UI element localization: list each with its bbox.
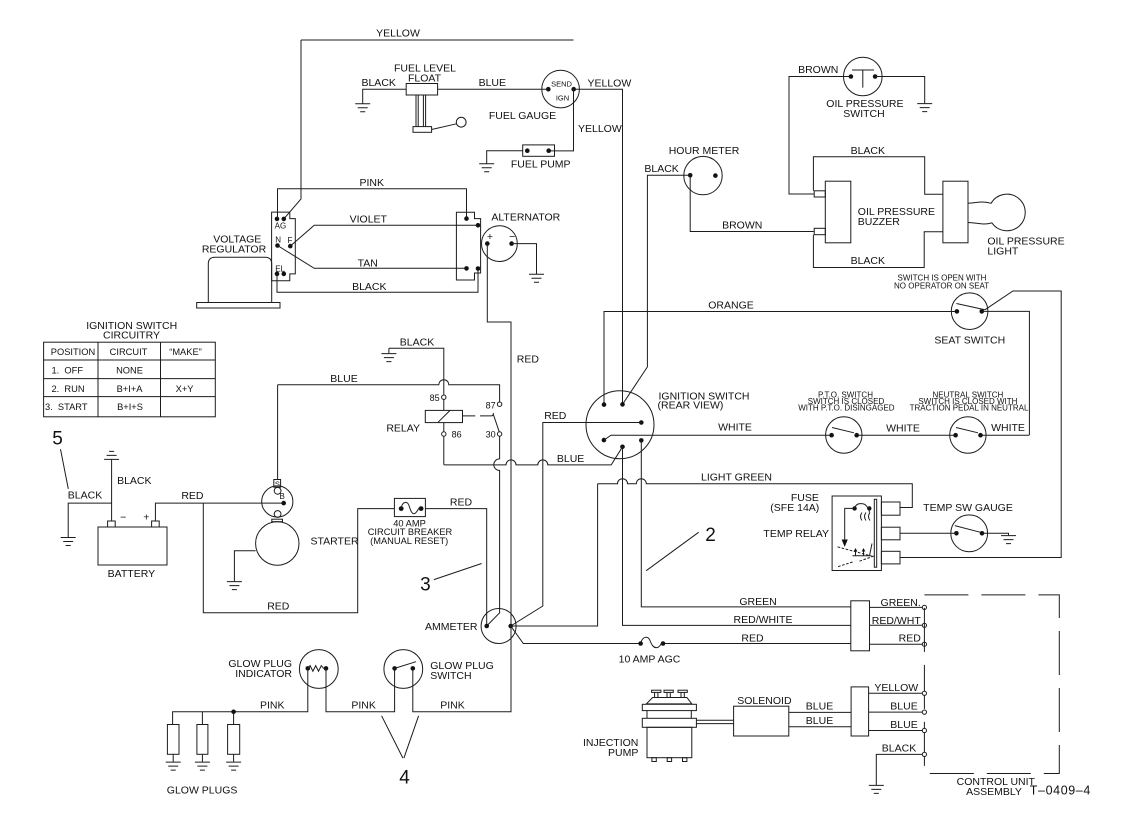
voltage regulator body xyxy=(197,234,280,308)
svg-text:SEAT SWITCH: SEAT SWITCH xyxy=(934,335,1005,347)
ground (oil switch) xyxy=(917,104,932,112)
svg-text:CIRCUIT: CIRCUIT xyxy=(110,347,148,357)
svg-text:BLACK: BLACK xyxy=(851,145,885,157)
svg-text:WHITE: WHITE xyxy=(718,422,752,434)
svg-text:BLACK: BLACK xyxy=(851,255,885,267)
svg-text:86: 86 xyxy=(452,430,462,440)
circuit breaker 40 amp xyxy=(368,498,453,545)
svg-text:SWITCH: SWITCH xyxy=(430,670,471,682)
alternator xyxy=(482,212,561,262)
temp relay xyxy=(763,492,900,571)
svg-text:N: N xyxy=(275,235,281,244)
wire BLACK buzzer upper loop xyxy=(813,145,943,194)
svg-text:F: F xyxy=(288,236,293,245)
svg-text:BLUE: BLUE xyxy=(806,715,833,727)
wire RED ammeter to control connector xyxy=(511,626,851,644)
wire injection pump rod to solenoid xyxy=(696,720,733,723)
svg-text:ALTERNATOR: ALTERNATOR xyxy=(491,212,560,224)
svg-text:TAN: TAN xyxy=(358,257,378,269)
svg-text:30: 30 xyxy=(486,430,496,440)
svg-text:RED/WHT: RED/WHT xyxy=(872,615,922,627)
svg-text:GREEN.: GREEN. xyxy=(881,597,921,609)
fuel gauge SEND/IGN xyxy=(489,70,580,122)
wire YELLOW top loop xyxy=(284,28,574,219)
svg-text:4: 4 xyxy=(399,767,410,788)
svg-text:GREEN: GREEN xyxy=(739,596,776,608)
control unit terminals upper xyxy=(922,605,926,646)
node 5 callout xyxy=(52,429,68,489)
wire seat switch right to white run xyxy=(982,311,1030,435)
ground (relay) xyxy=(381,354,396,362)
svg-text:(REAR VIEW): (REAR VIEW) xyxy=(658,400,724,412)
wire BLACK ground to control unit xyxy=(876,743,922,786)
starter xyxy=(256,480,359,566)
glow plug switch xyxy=(384,650,494,689)
svg-text:TRACTION PEDAL IN NEUTRAL: TRACTION PEDAL IN NEUTRAL xyxy=(910,404,1029,413)
svg-text:RED/WHITE: RED/WHITE xyxy=(734,614,793,626)
svg-text:−: − xyxy=(120,512,126,524)
wire YELLOW connector to control unit xyxy=(869,682,923,694)
svg-text:87: 87 xyxy=(486,400,496,410)
wire YELLOW gauge to ignition switch xyxy=(574,78,632,405)
svg-text:(SFE 14A): (SFE 14A) xyxy=(770,502,819,514)
svg-text:PINK: PINK xyxy=(351,700,376,712)
svg-text:B+I+A: B+I+A xyxy=(117,384,144,394)
svg-text:FLOAT: FLOAT xyxy=(408,73,442,85)
svg-text:ASSEMBLY: ASSEMBLY xyxy=(966,786,1022,798)
svg-text:SOLENOID: SOLENOID xyxy=(737,695,792,707)
temp sw gauge xyxy=(923,502,1013,552)
svg-text:YELLOW: YELLOW xyxy=(874,682,918,694)
svg-text:B+I+S: B+I+S xyxy=(117,402,143,412)
wire BLACK relay coil to ground xyxy=(389,336,444,395)
svg-text:BATTERY: BATTERY xyxy=(108,568,155,580)
wire alternator minus to ground xyxy=(512,244,537,274)
svg-text:RED: RED xyxy=(181,490,204,502)
svg-text:TEMP RELAY: TEMP RELAY xyxy=(763,528,829,540)
ground (glow plug 3) xyxy=(226,762,241,770)
svg-text:RED: RED xyxy=(450,497,473,509)
svg-text:10 AMP AGC: 10 AMP AGC xyxy=(619,653,681,665)
connector block lower xyxy=(851,687,869,736)
wire relay 30 to ammeter (hops blue) xyxy=(487,436,500,626)
svg-text:PINK: PINK xyxy=(260,700,285,712)
wire BLACK buzzer lower loop xyxy=(813,232,943,268)
wire PINK regulator to alternator xyxy=(278,177,467,219)
fuel pump xyxy=(511,145,571,170)
ignition switch circuitry table xyxy=(44,320,216,417)
svg-text:85: 85 xyxy=(430,393,440,403)
wire RED ignition to ammeter xyxy=(511,410,642,626)
svg-text:3. START: 3. START xyxy=(45,402,88,412)
wire BLUE starter S to relay 87 xyxy=(278,373,500,480)
pto switch xyxy=(798,390,895,453)
svg-text:RED: RED xyxy=(741,632,764,644)
svg-text:FUEL PUMP: FUEL PUMP xyxy=(511,158,571,170)
battery xyxy=(98,512,167,581)
svg-text:BROWN: BROWN xyxy=(798,64,838,76)
svg-text:BLUE: BLUE xyxy=(479,77,506,89)
svg-text:BLACK: BLACK xyxy=(400,336,434,348)
wire BLUE solenoid to connector (upper) xyxy=(789,701,851,713)
fuel level float xyxy=(394,63,466,133)
svg-text:LIGHT: LIGHT xyxy=(987,245,1019,257)
neutral switch xyxy=(910,390,1029,453)
svg-text:2. RUN: 2. RUN xyxy=(52,384,85,394)
svg-text:RED: RED xyxy=(899,632,922,644)
wire WHITE ignition to pto/neutral xyxy=(604,422,1030,440)
svg-text:RED: RED xyxy=(544,410,567,422)
oil pressure switch xyxy=(826,57,903,120)
node 4 callout xyxy=(382,716,419,789)
svg-text:TEMP SW GAUGE: TEMP SW GAUGE xyxy=(923,502,1013,514)
ammeter xyxy=(425,609,516,644)
svg-text:BROWN: BROWN xyxy=(722,220,762,232)
svg-text:CIRCUITRY: CIRCUITRY xyxy=(103,330,160,342)
wire BLUE float to fuel gauge xyxy=(438,77,549,89)
svg-text:LIGHT GREEN: LIGHT GREEN xyxy=(701,472,772,484)
control unit terminals lower xyxy=(922,691,926,756)
svg-text:BLACK: BLACK xyxy=(361,77,395,89)
svg-text:RED: RED xyxy=(517,354,540,366)
wire starter case to ground xyxy=(234,551,255,582)
wire BLACK hour meter to ignition switch xyxy=(623,163,691,404)
svg-text:5: 5 xyxy=(52,429,63,450)
oil pressure buzzer xyxy=(814,181,935,243)
svg-text:INDICATOR: INDICATOR xyxy=(235,668,292,680)
svg-text:BLACK: BLACK xyxy=(117,475,151,487)
svg-text:GLOW PLUGS: GLOW PLUGS xyxy=(167,785,238,797)
svg-text:(MANUAL RESET): (MANUAL RESET) xyxy=(370,536,448,546)
ground (glow plug 2) xyxy=(195,762,210,770)
wire gauge down to fuel pump xyxy=(549,89,574,151)
svg-text:YELLOW: YELLOW xyxy=(376,28,420,40)
wire seat switch blade to temp relay xyxy=(900,291,1061,558)
control unit assembly dashed box xyxy=(924,595,1091,798)
voltage regulator connector xyxy=(272,212,296,281)
wire gauge to ground xyxy=(982,533,1009,535)
wire fuel pump to ground xyxy=(487,151,523,164)
ground (left black) xyxy=(61,538,76,546)
svg-text:T–0409–4: T–0409–4 xyxy=(1030,784,1091,798)
svg-text:YELLOW: YELLOW xyxy=(588,78,632,90)
connector block upper xyxy=(851,597,923,651)
relay xyxy=(386,393,501,439)
wire LIGHT GREEN ammeter to temp relay xyxy=(511,472,913,627)
wire ORANGE ignition to seat switch xyxy=(604,300,957,405)
wire RED alternator plus to ammeter xyxy=(487,244,539,626)
svg-text:BLACK: BLACK xyxy=(644,163,678,175)
wire GREEN ignition to control connector xyxy=(641,440,851,608)
svg-text:VIOLET: VIOLET xyxy=(350,213,388,225)
alternator connector xyxy=(456,212,480,280)
injection pump xyxy=(583,690,696,761)
oil pressure light xyxy=(943,181,1065,257)
ground (glow plug 1) xyxy=(166,762,181,770)
svg-text:BLUE: BLUE xyxy=(890,701,917,713)
svg-text:B: B xyxy=(280,492,285,501)
svg-text:PINK: PINK xyxy=(440,700,465,712)
svg-text:RELAY: RELAY xyxy=(386,423,420,435)
svg-text:POSITION: POSITION xyxy=(51,347,95,357)
wire BLACK to ground (float) xyxy=(361,77,406,104)
ground (starter) xyxy=(227,582,242,590)
node 2 callout xyxy=(646,525,716,571)
wire PINK glow plug run xyxy=(173,626,511,725)
wire BLACK regulator to alternator xyxy=(277,269,478,293)
svg-text:NONE: NONE xyxy=(116,365,143,375)
wire RED battery to starter B xyxy=(155,490,283,521)
wire BROWN oil switch to buzzer xyxy=(789,64,851,194)
svg-text:PUMP: PUMP xyxy=(608,747,638,759)
ground (alternator) xyxy=(529,274,544,282)
fuse 10 amp agc xyxy=(619,637,681,665)
wire VIOLET F to alternator xyxy=(290,213,478,246)
glow plugs xyxy=(167,712,240,797)
wire RED breaker to ammeter xyxy=(425,497,486,626)
svg-text:BLACK: BLACK xyxy=(68,489,102,501)
svg-text:“MAKE”: “MAKE” xyxy=(169,347,202,357)
svg-text:FUEL GAUGE: FUEL GAUGE xyxy=(489,110,556,122)
ground (control unit black) xyxy=(869,785,884,793)
glow plug indicator xyxy=(228,650,338,689)
svg-text:BUZZER: BUZZER xyxy=(858,216,900,228)
ground (float) xyxy=(355,104,370,112)
wire oil switch to ground xyxy=(875,77,925,104)
svg-text:BLUE: BLUE xyxy=(557,453,584,465)
svg-text:IGN: IGN xyxy=(556,93,569,102)
svg-text:WHITE: WHITE xyxy=(886,422,920,434)
svg-text:BLACK: BLACK xyxy=(352,281,386,293)
svg-text:3: 3 xyxy=(420,575,431,596)
node 3 callout xyxy=(420,564,481,596)
svg-text:NO OPERATOR ON SEAT: NO OPERATOR ON SEAT xyxy=(894,281,989,290)
svg-text:AG: AG xyxy=(275,222,287,231)
wire temp relay to gauge xyxy=(900,532,956,534)
svg-text:BLUE: BLUE xyxy=(890,719,917,731)
svg-text:BLACK: BLACK xyxy=(882,743,916,755)
wire RED/WHITE ignition to control connector xyxy=(623,447,851,626)
hour meter xyxy=(669,145,740,195)
svg-text:BLUE: BLUE xyxy=(806,701,833,713)
svg-text:ORANGE: ORANGE xyxy=(708,300,754,312)
wire RED bottom run to circuit breaker xyxy=(203,503,394,613)
svg-text:+: + xyxy=(143,512,149,524)
wire BLUE ignition to relay 86 xyxy=(444,447,623,465)
svg-text:HOUR METER: HOUR METER xyxy=(669,145,740,157)
svg-text:2: 2 xyxy=(705,525,716,546)
wire TAN N to alternator xyxy=(278,246,467,270)
ground (battery negative, inverted) xyxy=(104,451,151,521)
wire BLACK battery negative branch xyxy=(68,489,112,537)
solenoid xyxy=(734,695,792,736)
svg-text:RED: RED xyxy=(267,600,290,612)
wire BLUE connector to control unit (upper) xyxy=(869,701,923,713)
ground (fuel pump) xyxy=(479,164,494,172)
svg-text:1. OFF: 1. OFF xyxy=(52,365,84,375)
svg-text:PINK: PINK xyxy=(359,177,384,189)
svg-text:BLUE: BLUE xyxy=(330,373,357,385)
svg-text:WITH P.T.O. DISINGAGED: WITH P.T.O. DISINGAGED xyxy=(798,404,895,413)
seat switch xyxy=(894,274,1005,347)
ground (gauge) xyxy=(1001,536,1016,544)
svg-text:X+Y: X+Y xyxy=(176,384,194,394)
ignition switch xyxy=(586,391,750,459)
svg-text:SWITCH: SWITCH xyxy=(843,108,884,120)
wire relay 86 to blue run xyxy=(443,436,445,465)
wire BLUE connector to control unit (lower) xyxy=(869,719,923,731)
wire BLUE solenoid to connector (lower) xyxy=(789,715,851,727)
wire BROWN hour meter to buzzer xyxy=(690,175,814,231)
svg-text:YELLOW: YELLOW xyxy=(578,123,622,135)
svg-text:AMMETER: AMMETER xyxy=(425,621,478,633)
svg-text:STARTER: STARTER xyxy=(311,536,359,548)
svg-text:REGULATOR: REGULATOR xyxy=(202,244,267,256)
svg-text:WHITE: WHITE xyxy=(991,422,1025,434)
svg-text:SEND: SEND xyxy=(551,79,572,88)
